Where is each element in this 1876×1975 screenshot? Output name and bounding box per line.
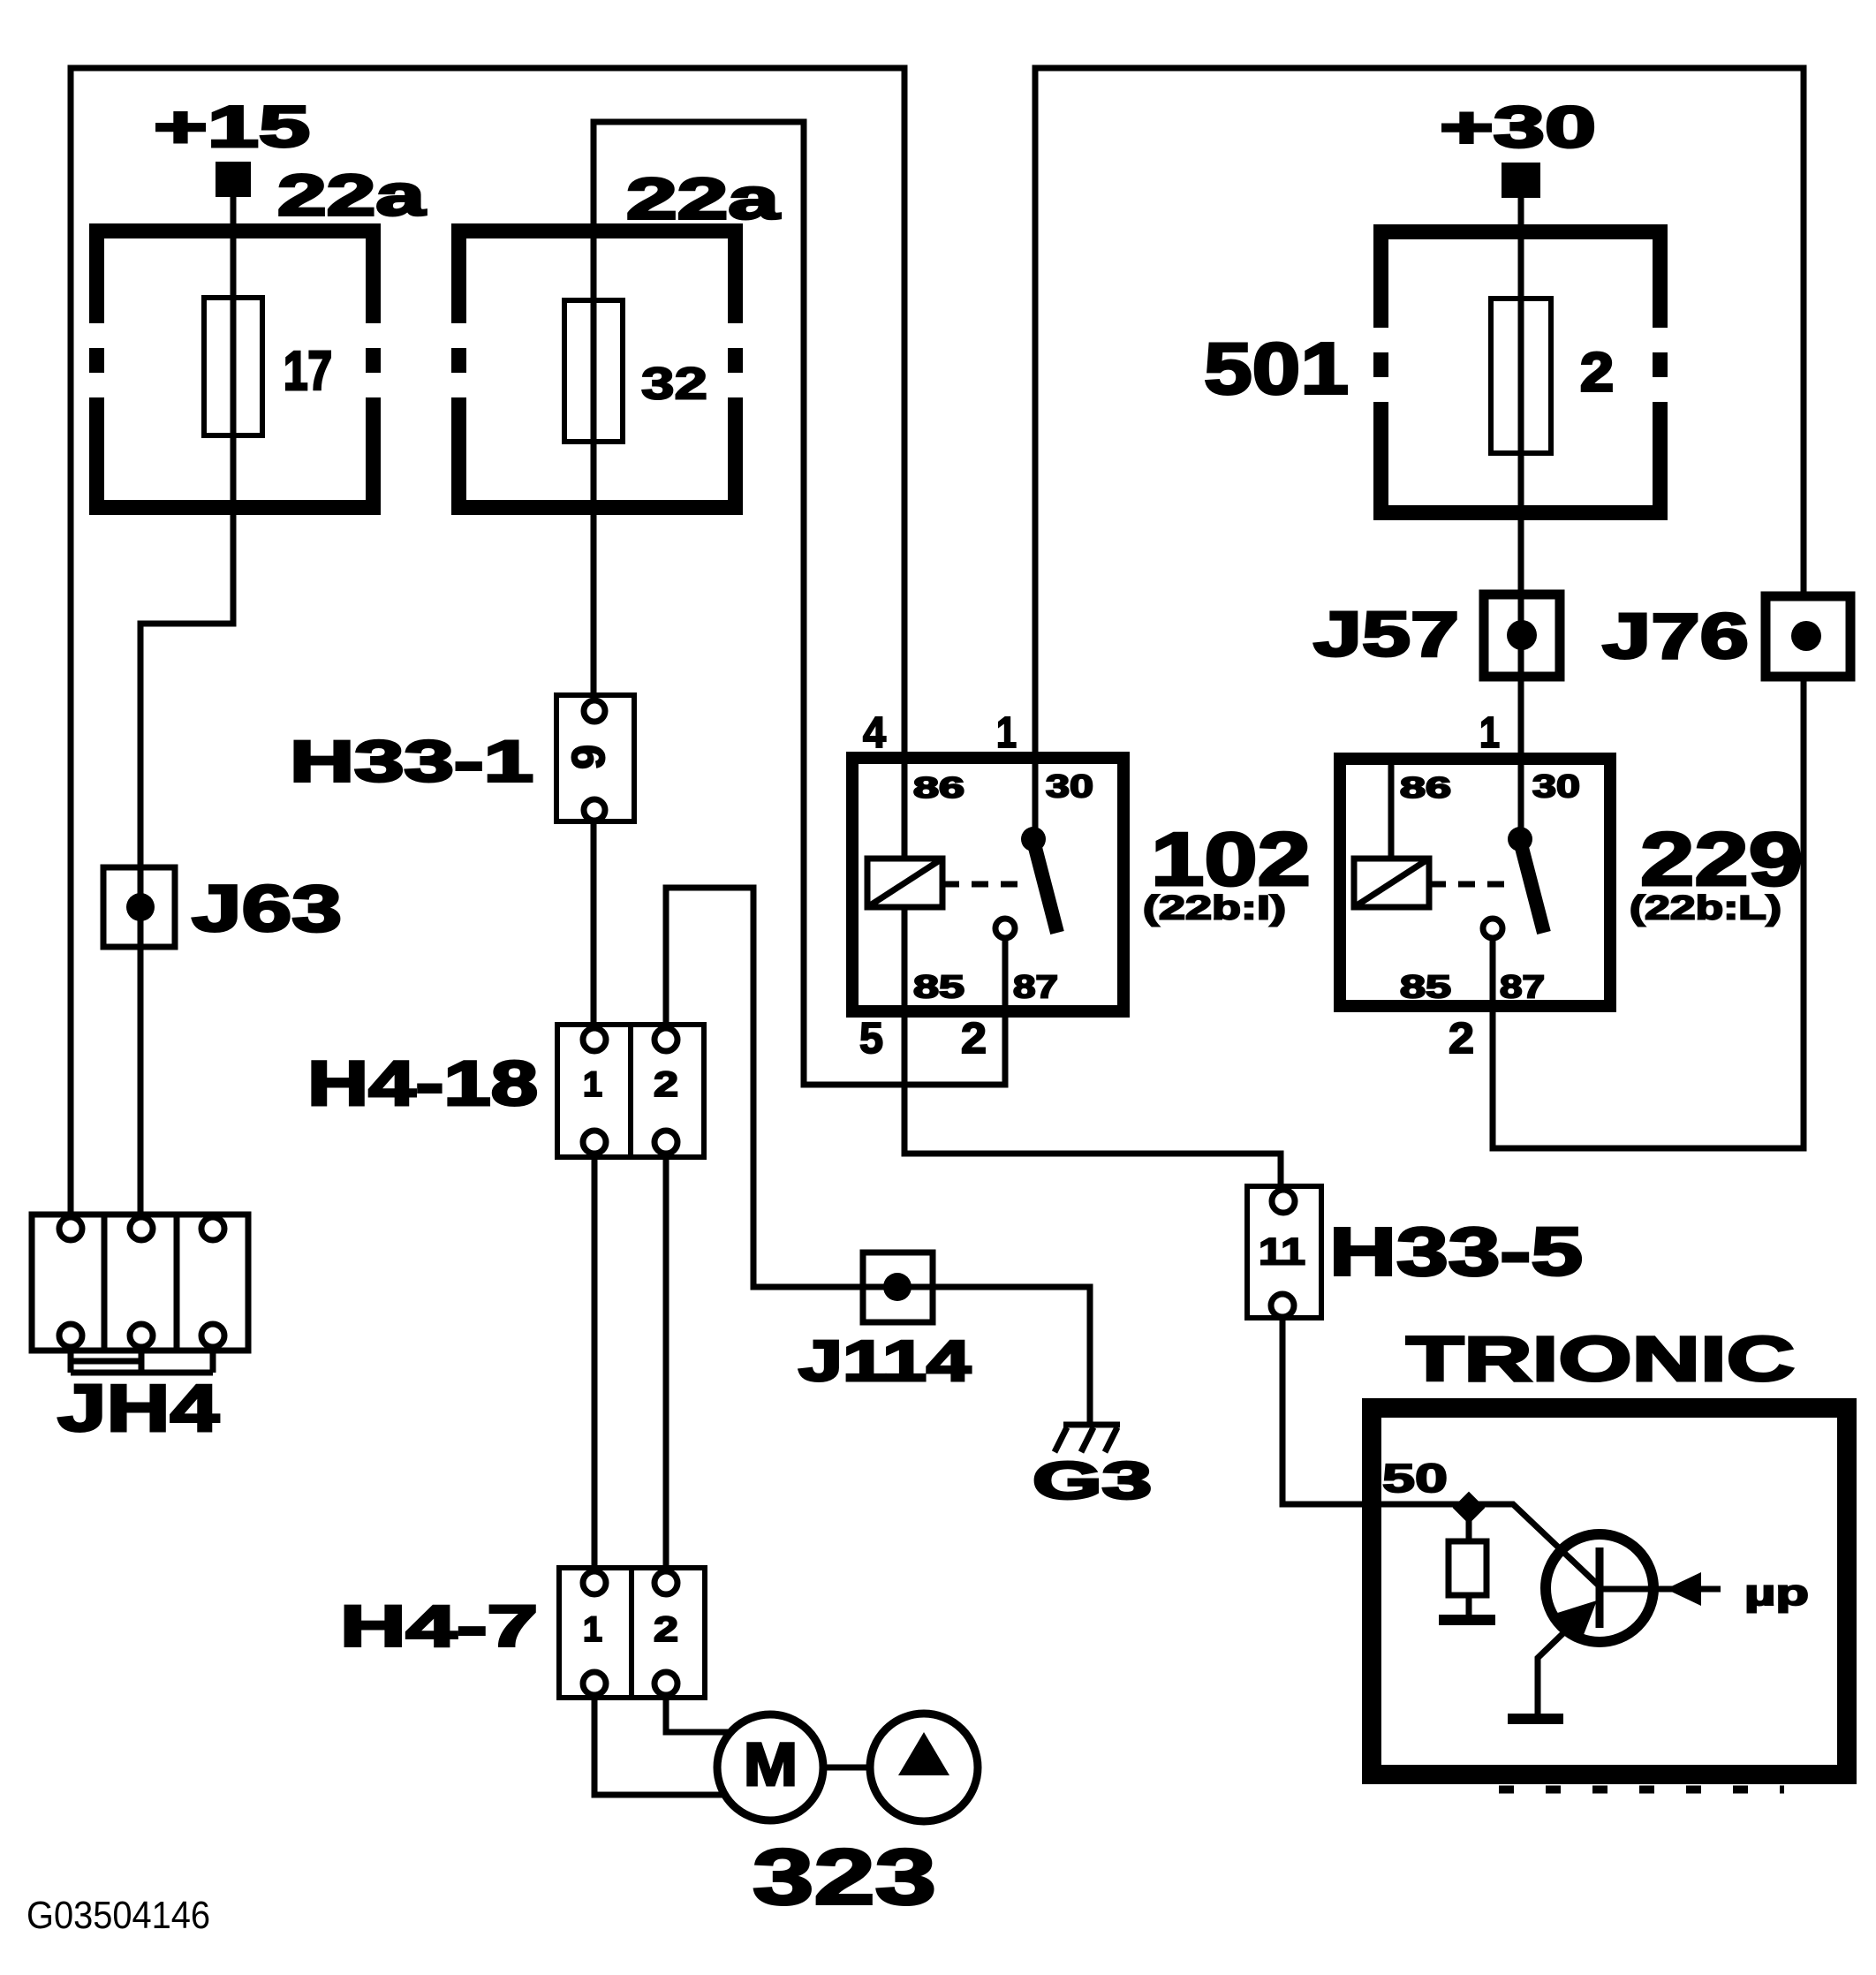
microprocessor wire with arrow: [1602, 1586, 1721, 1593]
svg-text:32: 32: [641, 359, 707, 409]
wire: fuse 32 loop over to relay 102 contact 87: [594, 122, 1005, 1085]
svg-text:22a: 22a: [626, 166, 781, 231]
svg-text:H33-5: H33-5: [1329, 1215, 1583, 1290]
svg-text:G03504146: G03504146: [26, 1894, 210, 1937]
relay 102 contact 87 circle: [995, 919, 1015, 938]
svg-text:+15: +15: [154, 94, 310, 159]
svg-text:2: 2: [1449, 1014, 1474, 1063]
svg-text:(22b:I): (22b:I): [1143, 890, 1286, 927]
wire: H4-18 pin 2 up, right, down through J114, right, down to G3: [666, 888, 1090, 1423]
svg-text:85: 85: [1400, 970, 1451, 1005]
wire: J76 down, left, up to relay 229 contact 87: [1493, 672, 1804, 1148]
svg-text:86: 86: [1400, 771, 1451, 804]
svg-text:1: 1: [583, 1065, 602, 1104]
svg-text:30: 30: [1532, 769, 1580, 805]
fuse F17 element: [204, 298, 262, 435]
+30 terminal square: [1502, 163, 1540, 198]
svg-text:G3: G3: [1033, 1452, 1152, 1510]
svg-text:323: 323: [753, 1833, 936, 1921]
+15 terminal square: [216, 162, 251, 197]
svg-text:+30: +30: [1440, 95, 1596, 160]
wire: +15 down through fuse 17, left, down through J63 to JH4 pin 2: [140, 193, 233, 1217]
svg-text:4: 4: [863, 708, 887, 757]
svg-text:2: 2: [961, 1014, 987, 1063]
svg-text:2: 2: [654, 1610, 678, 1649]
svg-text:9: 9: [564, 745, 615, 769]
svg-text:J114: J114: [798, 1329, 971, 1393]
transistor emitter with arrow to ground: [1538, 1608, 1590, 1714]
fuse F501 box: [1373, 224, 1668, 520]
fuse F501 element: [1491, 299, 1551, 453]
TRIONIC ECU box: [1372, 1408, 1847, 1774]
transistor circle: [1546, 1534, 1653, 1642]
ground G3: [1055, 1425, 1120, 1452]
relay 229 box: [1340, 759, 1610, 1006]
relay 229 dashed link: [1429, 882, 1517, 888]
motor M circle: [717, 1714, 823, 1820]
svg-text:85: 85: [913, 970, 964, 1005]
svg-text:86: 86: [913, 771, 964, 804]
splice J76: [1766, 596, 1850, 677]
svg-text:J76: J76: [1602, 601, 1749, 672]
relay 102 box: [852, 758, 1123, 1011]
svg-text:J63: J63: [192, 872, 342, 945]
connector H4-18: [557, 1025, 704, 1157]
wire: H33-5 down and right into TRIONIC pin 50: [1282, 1317, 1466, 1504]
svg-text:H4-7: H4-7: [340, 1593, 538, 1659]
relay 102 pivot 30: [1021, 827, 1046, 851]
relay 102 switch arm: [1033, 841, 1057, 933]
fuse F32 box 22a: [451, 223, 743, 515]
wire: relay 229 coil 86 stub: [1388, 758, 1395, 859]
svg-text:501: 501: [1204, 329, 1349, 410]
connector H33-1: [556, 695, 634, 821]
connector H4-7: [559, 1568, 705, 1698]
resistor R: [1449, 1508, 1486, 1616]
wire: relay 102 pin 1/30 up across top down to J76: [1035, 68, 1804, 839]
svg-text:1: 1: [996, 708, 1017, 757]
fuse F32 element: [564, 300, 623, 442]
node 50 junction diamond: [1453, 1492, 1486, 1525]
wire: H4-18 pin 1 down to H4-7 pin 1: [592, 1154, 598, 1570]
svg-text:22a: 22a: [277, 163, 427, 228]
relay 229 coil: [1354, 859, 1429, 907]
connector H33-5: [1247, 1186, 1321, 1318]
svg-text:M: M: [744, 1730, 798, 1798]
splice J57: [1484, 594, 1560, 677]
pump circle with triangle: [870, 1714, 978, 1821]
svg-text:µp: µp: [1744, 1572, 1809, 1613]
fuse F17 box 22a: [89, 223, 381, 515]
svg-text:5: 5: [859, 1014, 883, 1063]
connector JH4: [32, 1215, 248, 1373]
svg-text:H33-1: H33-1: [290, 729, 533, 794]
wire: left border from JH4 up across top down into relay 102 pin 4/86 coil: [71, 68, 904, 1217]
relay 102 dashed link: [942, 882, 1030, 888]
wire: H4-7 pin 2 down right to motor 323: [666, 1696, 731, 1732]
wire: fuse 32 down to H33-1 pin 9: [591, 223, 597, 699]
relay 229 contact 87 circle: [1483, 919, 1502, 938]
svg-text:H4-18: H4-18: [307, 1048, 538, 1119]
svg-text:J57: J57: [1313, 600, 1459, 670]
relay 229 switch arm: [1520, 841, 1544, 933]
wire: node 50 to transistor base (collector): [1469, 1504, 1600, 1587]
svg-text:11: 11: [1259, 1232, 1305, 1274]
svg-text:2: 2: [1580, 343, 1614, 404]
svg-text:50: 50: [1382, 1456, 1448, 1501]
svg-text:87: 87: [1013, 970, 1058, 1005]
wire: H4-18 pin 2 down to H4-7 pin 2: [663, 1154, 669, 1570]
wire: motor to pump link: [823, 1765, 871, 1771]
relay 229 pivot 30: [1508, 827, 1532, 851]
splice J63: [103, 867, 175, 947]
relay 102 coil: [867, 859, 942, 907]
svg-text:1: 1: [583, 1610, 602, 1649]
wire: relay 102 coil pin 5/85 down and right to H33-5 pin 11: [904, 907, 1281, 1189]
svg-text:TRIONIC: TRIONIC: [1406, 1324, 1795, 1395]
svg-text:2: 2: [654, 1065, 678, 1104]
wire: H4-7 pin 1 down right to motor 323: [594, 1696, 726, 1795]
tick marks under TRIONIC box: [1499, 1786, 1784, 1794]
svg-text:(22b:L): (22b:L): [1630, 890, 1781, 927]
transistor base bar: [1596, 1547, 1604, 1628]
svg-text:87: 87: [1500, 970, 1545, 1005]
wire: +30 down through fuse 501 and J57 to relay 229 pivot 30: [1518, 194, 1524, 839]
ground bar under resistor: [1439, 1615, 1495, 1625]
svg-text:1: 1: [1479, 708, 1500, 757]
wire: H33-1 to H4-18 pin 1: [591, 822, 597, 1027]
splice J114: [863, 1252, 933, 1322]
svg-text:17: 17: [284, 341, 332, 402]
svg-text:30: 30: [1046, 769, 1093, 805]
svg-text:JH4: JH4: [57, 1371, 219, 1445]
ground bar under emitter: [1508, 1714, 1563, 1724]
